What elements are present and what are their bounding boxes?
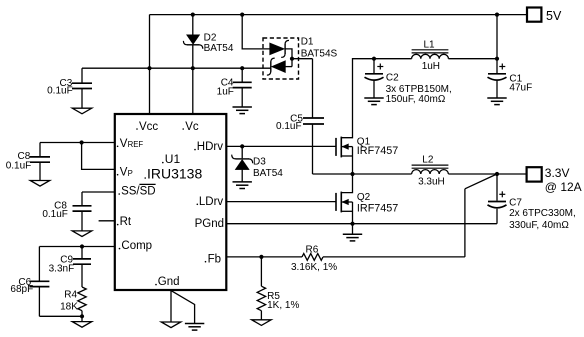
svg-text:1K, 1%: 1K, 1% (267, 300, 299, 311)
svg-text:SS/SD: SS/SD (121, 186, 156, 198)
svg-text:V: V (120, 166, 128, 178)
svg-text:3.3nF: 3.3nF (49, 263, 75, 274)
svg-text:D2: D2 (204, 32, 217, 43)
svg-text:PGnd: PGnd (195, 218, 224, 230)
svg-text:68pF: 68pF (10, 284, 33, 295)
svg-text:@ 12A: @ 12A (545, 180, 582, 194)
svg-text:P: P (128, 169, 133, 178)
svg-text:L1: L1 (424, 40, 436, 51)
svg-text:0.1uF: 0.1uF (6, 160, 32, 171)
svg-text:U1: U1 (165, 152, 181, 166)
svg-text:0.1uF: 0.1uF (276, 121, 302, 132)
svg-text:0.1uF: 0.1uF (47, 86, 73, 97)
svg-text:330uF, 40mΩ: 330uF, 40mΩ (509, 220, 569, 231)
svg-text:Q2: Q2 (357, 192, 371, 203)
svg-text:IRU3138: IRU3138 (147, 166, 202, 182)
svg-text:Comp: Comp (121, 240, 152, 252)
svg-text:L2: L2 (422, 155, 434, 166)
svg-text:3.3uH: 3.3uH (418, 176, 445, 187)
svg-text:2x 6TPC330M,: 2x 6TPC330M, (509, 208, 576, 219)
svg-text:D1: D1 (301, 37, 314, 48)
svg-text:BAT54S: BAT54S (301, 48, 338, 59)
svg-text:Rt: Rt (120, 216, 132, 228)
svg-text:BAT54: BAT54 (253, 168, 283, 179)
svg-text:IRF7457: IRF7457 (357, 203, 398, 215)
svg-text:0.1uF: 0.1uF (42, 209, 68, 220)
svg-text:V: V (120, 138, 128, 150)
svg-text:D3: D3 (253, 157, 266, 168)
svg-text:C7: C7 (509, 198, 522, 209)
svg-text:Vc: Vc (185, 121, 199, 133)
svg-text:R6: R6 (306, 244, 319, 255)
svg-text:3.3V: 3.3V (545, 166, 570, 180)
svg-text:HDrv: HDrv (197, 141, 223, 153)
svg-text:C2: C2 (386, 73, 399, 84)
svg-text:REF: REF (128, 140, 144, 149)
svg-text:47uF: 47uF (509, 83, 532, 94)
svg-text:R4: R4 (64, 290, 77, 301)
svg-text:BAT54: BAT54 (204, 43, 234, 54)
svg-text:1uF: 1uF (217, 87, 234, 98)
svg-text:5V: 5V (546, 9, 562, 23)
svg-text:LDrv: LDrv (199, 196, 224, 208)
svg-text:Fb: Fb (208, 253, 221, 265)
svg-text:Vcc: Vcc (139, 121, 158, 133)
svg-text:150uF, 40mΩ: 150uF, 40mΩ (386, 94, 446, 105)
svg-text:18K: 18K (60, 302, 78, 313)
svg-text:1uH: 1uH (422, 61, 440, 72)
svg-text:IRF7457: IRF7457 (357, 145, 398, 157)
svg-text:Gnd: Gnd (158, 276, 180, 288)
svg-text:3.16K, 1%: 3.16K, 1% (291, 262, 337, 273)
